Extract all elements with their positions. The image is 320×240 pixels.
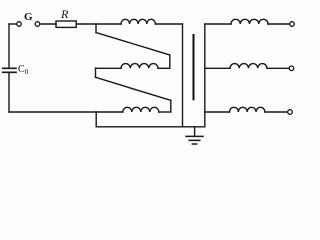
wire secondary branch 1 lead [205, 23, 231, 25]
wire L6 to terminal [265, 111, 288, 113]
wire secondary branch 2 lead [205, 67, 230, 69]
transformer core bar [193, 35, 195, 99]
terminal circle antenna 1 [290, 22, 295, 27]
wire junction drop at tap node [95, 24, 97, 33]
wire drop at L2 left tap [95, 68, 97, 77]
primary coil L3 [123, 107, 159, 112]
secondary coil L4 [231, 19, 268, 24]
wire L1 to right vertical [155, 23, 182, 25]
wire gap to resistor [40, 23, 56, 25]
label R (resistor) [61, 7, 68, 22]
wire secondary bus [204, 24, 206, 127]
wire left vertical top (gap corner down to C0) [8, 24, 10, 68]
capacitor C0 [3, 68, 16, 72]
label G (spark gap) [24, 11, 33, 23]
terminal circle antenna 2 [289, 66, 294, 71]
label C0 (capacitor) [18, 64, 28, 76]
wire resistor to coil L1 [76, 23, 121, 25]
wire L5 to terminal [267, 67, 289, 69]
secondary coil L5 [230, 64, 267, 69]
wire bottom of C0 loop [9, 111, 96, 113]
primary coil L2 [121, 64, 158, 69]
spark gap G electrode 2 [35, 22, 40, 27]
secondary coil L6 [230, 107, 265, 112]
wire junction drop to bottom rail [95, 112, 97, 127]
wire L4 to terminal [268, 23, 290, 25]
wire L2 right lead [158, 67, 170, 69]
primary coil L1 [121, 19, 155, 24]
ground [186, 136, 203, 144]
wire L2 left lead [96, 67, 122, 69]
spark gap G electrode 1 [17, 22, 22, 27]
wire primary right vertical [182, 24, 184, 127]
ground stub wire [194, 127, 196, 136]
wire secondary branch 3 lead [205, 111, 230, 113]
wire diagonal tap to L2 right end [96, 33, 170, 56]
terminal circle antenna 3 [288, 110, 293, 115]
wire drop to L3 level [170, 100, 172, 112]
wire bottom rail [96, 126, 205, 128]
wire top left to spark gap [9, 23, 17, 25]
wire L3 left lead [96, 111, 123, 113]
wire diagonal tap to L3 right end [96, 77, 171, 100]
wire L3 right lead [159, 111, 171, 113]
wire left vertical bottom (C0 down to bottom wire) [8, 72, 10, 112]
wire drop to L2 level [169, 55, 171, 68]
resistor R body [56, 21, 76, 27]
